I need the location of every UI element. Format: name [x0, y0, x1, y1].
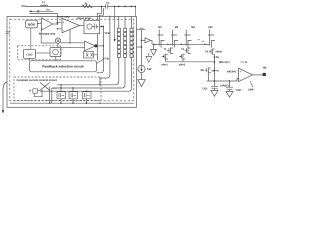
wire U2 lower feedback: [69, 30, 70, 44]
capacitor C01: [203, 81, 219, 91]
op-amp CMP: [239, 68, 253, 81]
ground under Iref: [138, 73, 146, 87]
op-amp U3 comparator: [85, 41, 98, 51]
svg-text:R: R: [29, 89, 31, 92]
op-amp U1: [39, 18, 56, 36]
wire rail drop pair into output stage: [97, 6, 103, 20]
wire U2 output: [80, 25, 85, 27]
capacitor C02: [220, 81, 241, 92]
switch T2: [181, 48, 190, 54]
wire cell returns to ground bus: [61, 99, 87, 103]
wire BGR to amp: [37, 23, 41, 25]
svg-text:NB: NB: [263, 66, 267, 69]
current cell 1: [57, 84, 66, 99]
svg-text:VREFIN: VREFIN: [227, 70, 236, 73]
svg-text:TK: TK: [205, 51, 209, 54]
ground bias: [151, 44, 157, 55]
callout FB: [97, 58, 109, 64]
wire mirror bias column: [137, 30, 143, 66]
wire U1 feedback: [41, 28, 55, 43]
wire mid tap drop: [100, 16, 110, 85]
ground bus: [10, 103, 134, 104]
label VREFIN: [227, 70, 239, 73]
svg-text:sW×K: sW×K: [215, 51, 222, 54]
mirror FET sW2: [179, 54, 186, 67]
transistor MN: [205, 26, 215, 48]
svg-text:Co: Co: [106, 1, 110, 4]
svg-text:(2N-1)·I1: (2N-1)·I1: [219, 61, 230, 64]
mirror FET sW1: [161, 54, 168, 67]
ground under C01: [211, 91, 218, 97]
svg-text:-: -: [63, 29, 64, 32]
svg-text:M3: M3: [191, 26, 195, 29]
svg-text:M1: M1: [158, 26, 162, 29]
annotation current arrow Iin: [29, 9, 54, 13]
switch T1: [164, 48, 173, 54]
resistor RL: [82, 2, 92, 7]
buffer amp A1: [55, 38, 60, 43]
wire chip ground exit: [2, 82, 7, 114]
gate bus: [152, 44, 210, 45]
constant current control dashed box: [14, 77, 101, 101]
transistor M2: [168, 26, 179, 48]
inductor L1: [41, 1, 48, 6]
callout CMP: [248, 81, 254, 92]
wire U1 output: [53, 23, 59, 24]
current source Iref: [138, 65, 152, 72]
svg-text:FB: FB: [105, 58, 109, 61]
chip outer border: [7, 17, 137, 108]
wire U2 inputs: [57, 22, 62, 30]
wire LDO to OSC: [36, 52, 51, 54]
svg-text:(VREF): (VREF): [220, 85, 229, 88]
svg-text:IL: IL: [245, 61, 248, 64]
switch X: [40, 83, 50, 91]
svg-text:-: -: [240, 78, 241, 81]
output stage box: [77, 17, 100, 34]
node junction on rail: [101, 6, 103, 8]
block OSC: [50, 48, 61, 57]
svg-text:sW×2: sW×2: [179, 63, 186, 66]
svg-text:sW×1: sW×1: [161, 63, 168, 66]
switch TK: [205, 49, 222, 55]
svg-text:Iin: Iin: [47, 9, 50, 12]
svg-text:SD: SD: [201, 69, 205, 72]
ground bulk: [146, 53, 152, 62]
wire A1 drop: [57, 43, 59, 47]
svg-text:LDO: LDO: [27, 53, 34, 57]
resistor Rs: [29, 89, 42, 97]
reference bus: [207, 79, 239, 82]
svg-text:C01: C01: [203, 87, 208, 90]
resistor string column R2: [124, 17, 127, 86]
block LDO: [24, 49, 36, 58]
ellipsis: [198, 40, 205, 41]
resistor string column R3: [130, 17, 133, 89]
svg-text:NL: NL: [216, 56, 220, 59]
wire U3 inputs: [61, 43, 85, 48]
svg-text:Iref: Iref: [147, 67, 151, 71]
wire U3 output: [98, 45, 105, 46]
svg-text:BGR: BGR: [28, 23, 36, 27]
sense block: [84, 52, 98, 59]
left border pin ticks: [6, 32, 10, 34]
svg-text:RL: RL: [85, 2, 89, 5]
svg-text:MN: MN: [209, 26, 213, 29]
wire switch drops: [50, 87, 57, 104]
svg-text:C02: C02: [236, 89, 241, 92]
voltage reference BGR: [26, 20, 38, 28]
wire output-stage bus drop: [97, 27, 104, 86]
switch SD: [201, 68, 219, 73]
wire tap bundle to control cells: [40, 81, 131, 91]
svg-text:error amp: error amp: [58, 15, 71, 18]
label Vin: [21, 4, 26, 8]
wire vertical to feedback box: [96, 34, 98, 61]
current cell 3: [83, 91, 92, 99]
wire output stage to bus: [100, 26, 105, 27]
svg-text:output stage: output stage: [77, 17, 93, 20]
control sub-block dashed box: [18, 46, 61, 60]
resistor string column R1: [117, 17, 120, 82]
svg-text:Constant current control circu: Constant current control circuit: [17, 79, 57, 82]
ground under C02: [226, 91, 233, 97]
wire SD to bus: [208, 73, 210, 81]
op-amp U2 error amp: [58, 15, 80, 32]
buffer B1: [142, 38, 153, 45]
svg-text:M2: M2: [175, 26, 179, 29]
transistor M1: [154, 26, 164, 48]
mirror rail: [166, 61, 215, 63]
wire chip to mirror top: [137, 28, 146, 30]
capacitor Co (series): [106, 1, 110, 8]
current cell 2: [69, 87, 78, 99]
svg-text:Vin: Vin: [21, 4, 26, 8]
chip inner dashed boundary: [10, 19, 134, 101]
svg-text:sW×N: sW×N: [212, 69, 219, 72]
svg-text:VFB: VFB: [105, 32, 110, 35]
node rail taps: [114, 6, 136, 8]
wire top rail: [26, 5, 136, 7]
wire sense line into chip: [30, 14, 58, 24]
feedback selection circuit box: [30, 61, 97, 72]
transistor M3: [181, 26, 195, 48]
wire BGR bias drop: [30, 28, 32, 49]
node NL column: [214, 54, 220, 81]
svg-text:Feedback selection circuit: Feedback selection circuit: [42, 65, 84, 69]
svg-text:CMP: CMP: [248, 89, 254, 92]
wire LDO drop: [30, 57, 56, 61]
annotation feedback arrow VFB: [105, 6, 116, 42]
wire rail to border corner: [134, 6, 136, 16]
wire CMP output pad NB: [253, 66, 267, 76]
label output current: [219, 61, 248, 64]
